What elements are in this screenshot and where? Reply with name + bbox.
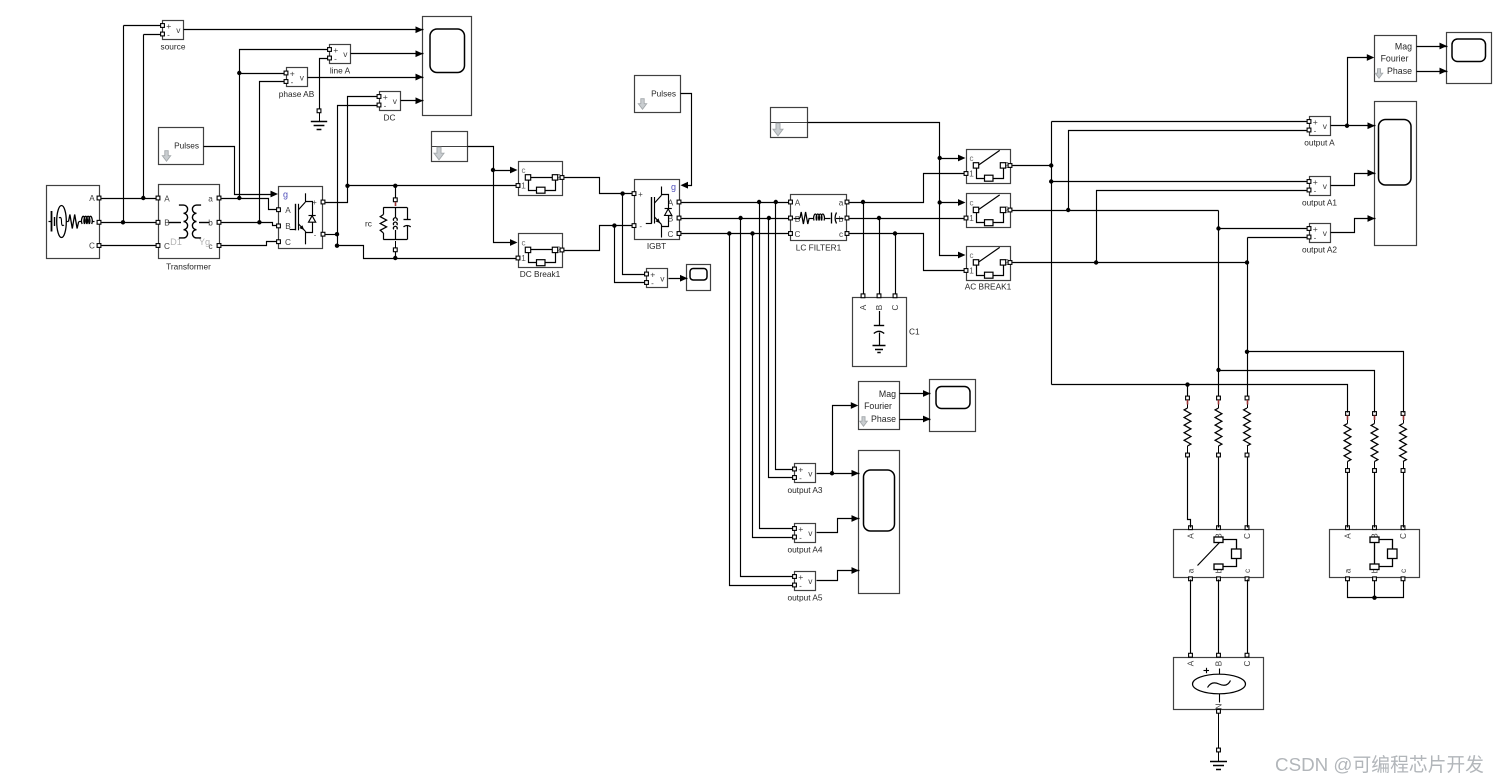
svg-text:C: C [285,238,291,247]
svg-text:C: C [1243,533,1252,539]
svg-text:Mag: Mag [879,389,896,399]
svg-text:c: c [970,198,974,207]
svg-text:phase AB: phase AB [279,89,315,99]
svg-text:A: A [285,206,291,215]
svg-text:N: N [1215,703,1224,709]
svg-text:A: A [795,199,801,208]
svg-text:c: c [970,251,974,260]
svg-text:a: a [1344,568,1353,573]
svg-text:Mag: Mag [1395,42,1412,52]
svg-text:1: 1 [969,266,974,276]
svg-text:line A: line A [330,66,351,76]
svg-text:C: C [795,230,801,239]
svg-text:C: C [668,230,674,239]
svg-text:1: 1 [969,169,974,179]
svg-text:output A4: output A4 [787,545,822,555]
svg-text:output A1: output A1 [1302,198,1337,208]
svg-text:output A3: output A3 [787,485,822,495]
svg-text:AC BREAK1: AC BREAK1 [965,282,1012,292]
svg-text:1: 1 [521,253,526,263]
svg-text:B: B [875,304,884,310]
svg-text:rc: rc [365,219,372,229]
svg-text:CSDN @可编程芯片开发: CSDN @可编程芯片开发 [1275,754,1484,775]
svg-text:Fourier: Fourier [864,401,892,411]
svg-text:-: - [799,581,802,590]
svg-text:output A5: output A5 [787,593,822,603]
svg-text:C: C [164,242,170,251]
svg-text:1: 1 [969,213,974,223]
svg-text:A: A [1344,533,1353,539]
svg-text:a: a [208,194,213,203]
svg-text:A: A [1187,533,1196,539]
svg-text:g: g [671,182,676,192]
svg-text:a: a [839,199,844,208]
svg-text:A: A [164,194,170,203]
svg-text:source: source [161,42,186,52]
svg-text:LC FILTER1: LC FILTER1 [796,243,842,253]
svg-text:Fourier: Fourier [1381,54,1409,64]
svg-text:C: C [891,304,900,310]
svg-text:Phase: Phase [1387,66,1412,76]
svg-text:c: c [1243,569,1252,573]
svg-text:+: + [638,190,643,199]
svg-text:C: C [1399,533,1408,539]
svg-text:Phase: Phase [871,414,896,424]
svg-text:DC Break1: DC Break1 [520,269,561,279]
svg-text:B: B [1215,660,1224,666]
svg-text:c: c [839,230,843,239]
svg-text:b: b [839,215,844,224]
svg-text:-: - [1314,233,1317,242]
svg-text:-: - [334,54,337,63]
svg-text:Transformer: Transformer [166,262,211,272]
svg-text:a: a [1187,568,1196,573]
svg-text:-: - [1314,126,1317,135]
svg-text:C: C [1243,660,1252,666]
svg-text:Pulses: Pulses [174,141,199,151]
svg-text:DC: DC [384,113,396,123]
svg-text:-: - [799,533,802,542]
svg-text:Pulses: Pulses [651,89,676,99]
svg-text:output A: output A [1304,138,1335,148]
svg-text:A: A [1187,660,1196,666]
svg-text:A: A [89,194,95,203]
svg-text:-: - [384,101,387,110]
svg-text:output A2: output A2 [1302,245,1337,255]
svg-text:-: - [651,279,654,288]
svg-text:1: 1 [521,181,526,191]
svg-text:-: - [799,474,802,483]
svg-text:C1: C1 [909,327,920,337]
svg-text:-: - [167,30,170,39]
svg-text:c: c [970,154,974,163]
svg-text:C: C [89,242,95,251]
svg-text:g: g [283,190,288,200]
svg-text:c: c [522,238,526,247]
svg-text:A: A [859,304,868,310]
svg-text:-: - [1314,186,1317,195]
svg-text:c: c [1399,569,1408,573]
svg-text:IGBT: IGBT [647,241,666,251]
svg-text:c: c [522,166,526,175]
svg-text:-: - [291,78,294,87]
